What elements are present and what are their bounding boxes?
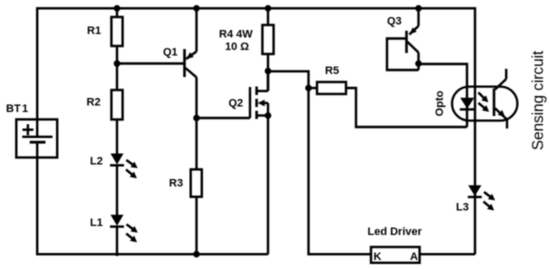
- svg-text:R1: R1: [87, 25, 101, 37]
- resistor R2: [111, 64, 122, 154]
- resistor R1: [111, 8, 122, 63]
- Led Driver box: [371, 247, 420, 263]
- svg-text:K: K: [374, 251, 382, 263]
- svg-text:L2: L2: [90, 156, 103, 168]
- svg-text:Led Driver: Led Driver: [368, 226, 423, 238]
- node bottom rail junction at R3: [193, 251, 200, 258]
- opto internal LED: [460, 98, 475, 110]
- wire R4 junction to R5: [268, 71, 309, 88]
- node top rail junction at Q1 emitter: [193, 5, 200, 12]
- node top rail junction at Q3: [415, 5, 422, 12]
- opto light arrows: [476, 90, 491, 114]
- svg-text:L1: L1: [90, 217, 103, 229]
- wire bottom right rail (led driver loop): [309, 88, 476, 254]
- node junction dot R1/R2/Q1-base: [114, 60, 121, 67]
- svg-text:R4 4W: R4 4W: [219, 29, 253, 41]
- node junction dot R4/Q2-drain/R5-branch: [265, 68, 272, 75]
- node Q3 collector junction dot: [415, 60, 422, 67]
- svg-text:R2: R2: [87, 96, 101, 108]
- svg-text:10 Ω: 10 Ω: [225, 41, 249, 53]
- resistor R5: [309, 82, 347, 94]
- wire bottom left rail (battery negative return): [37, 142, 268, 254]
- svg-text:Q3: Q3: [387, 16, 402, 28]
- node junction dot at R5 left lead: [305, 85, 312, 92]
- LED L2: [110, 154, 140, 216]
- svg-text:A: A: [410, 251, 418, 263]
- opto coupler body: [452, 87, 517, 121]
- svg-text:L3: L3: [456, 202, 469, 214]
- svg-text:BT1: BT1: [6, 103, 28, 115]
- wire Q1 collector to Q2 gate: [197, 117, 251, 119]
- resistor R3: [191, 169, 202, 255]
- svg-text:Q2: Q2: [229, 98, 244, 110]
- resistor R4: [262, 8, 273, 91]
- node top rail junction at R1: [114, 5, 121, 12]
- wire R5 to opto LED cathode: [346, 88, 467, 127]
- opto phototransistor: [494, 69, 507, 129]
- svg-text:Sensing circuit: Sensing circuit: [530, 50, 547, 150]
- wire top rail with battery drop (left) and sensing-branch drop (right): [37, 8, 475, 254]
- wire Q3 collector to opto LED anode: [419, 64, 468, 127]
- transistor Q2 (N-channel MOSFET): [250, 71, 268, 254]
- wire R1/R2 junction to Q1 base: [117, 62, 185, 64]
- svg-text:Opto: Opto: [434, 90, 446, 116]
- svg-text:Q1: Q1: [163, 47, 178, 59]
- LED L1: [110, 215, 140, 256]
- transistor Q3 (PNP, diode-connected): [407, 8, 419, 70]
- svg-text:R5: R5: [325, 65, 339, 77]
- node Q2 source junction dot: [265, 112, 272, 119]
- svg-text:R3: R3: [169, 177, 183, 189]
- node junction dot Q1-collector/R3/Q2-gate: [193, 115, 200, 122]
- transistor Q1 (PNP): [185, 8, 197, 169]
- battery BT1: [16, 119, 57, 157]
- wire Q3 base to collector loop: [387, 39, 419, 71]
- LED L3: [468, 185, 497, 213]
- node top rail junction at R4: [265, 5, 272, 12]
